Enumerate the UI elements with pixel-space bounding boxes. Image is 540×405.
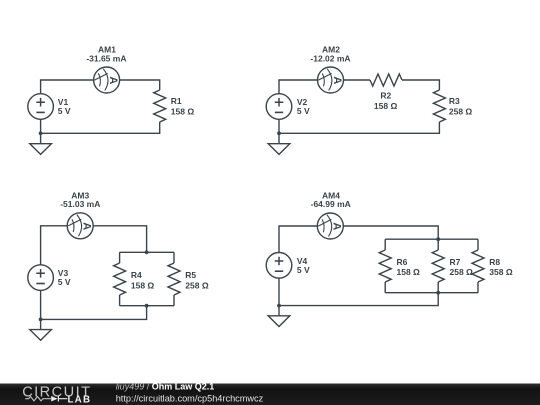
svg-text:258 Ω: 258 Ω [450,267,474,277]
ground circuit 2 [268,144,290,155]
junction node bottom rail c4 [436,291,440,295]
wire V2 bottom to ground [278,119,280,143]
wire V4 bottom to ground [278,278,280,316]
wire bottom node to V3 bottom [41,306,147,320]
svg-text:R8: R8 [489,257,500,267]
svg-text:-64.99 mA: -64.99 mA [311,199,351,209]
wire bottom rail R6 R7 R8 [385,292,478,294]
resistor R2 [370,74,402,86]
resistor R5 [168,263,180,295]
ammeter AM4 [317,213,343,239]
resistor R7 [432,250,444,282]
svg-text:5 V: 5 V [297,265,310,275]
wire bottom rail R4 R5 [120,305,174,307]
svg-text:-31.65 mA: -31.65 mA [86,54,126,64]
logo resistor squiggle [25,397,51,401]
svg-text:R6: R6 [397,257,408,267]
footer bar [0,0,1,1]
svg-text:158 Ω: 158 Ω [171,106,195,116]
wire V4 top to AM4 [279,226,317,253]
wire V1 top to AM1 [41,80,94,94]
wire top rail R6 R7 R8 [385,238,478,240]
resistor R3 [433,90,445,122]
svg-text:158 Ω: 158 Ω [374,101,398,111]
ammeter AM2 [318,67,344,93]
svg-text:A: A [81,222,93,230]
wire AM1 to R1 top [120,80,160,90]
wire R7 stubs [437,239,439,293]
wire V3 bottom to ground [40,290,42,329]
junction node top rail c4 [436,237,440,241]
svg-text:-12.02 mA: -12.02 mA [310,54,350,64]
wire AM3 to parallel top node [93,226,146,253]
svg-text:R3: R3 [449,96,460,106]
wire AM3 to V3 top [41,226,68,265]
svg-text:R4: R4 [131,270,142,280]
svg-text:LAB: LAB [68,394,92,405]
wire V1 bottom to ground [40,119,42,143]
svg-text:158 Ω: 158 Ω [397,267,421,277]
voltage source V1 [28,94,54,120]
voltage source V3 [28,265,54,291]
resistor R1 [154,90,166,122]
wire R5 stubs [173,252,175,305]
wire AM2 to R2 [344,79,371,81]
svg-text:A: A [331,76,343,84]
junction node V2-ground [277,131,281,135]
svg-text:A: A [331,222,343,230]
svg-text:http://circuitlab.com/cp5h4rch: http://circuitlab.com/cp5h4rchcmwcz [116,393,264,403]
wire top rail R4 R5 [120,251,174,253]
svg-text:5 V: 5 V [58,277,71,287]
svg-text:258 Ω: 258 Ω [449,106,473,116]
junction node bottom rail [145,304,149,308]
svg-text:R5: R5 [185,270,196,280]
voltage source V2 [266,94,292,120]
junction node V3-ground [39,318,43,322]
wire bottom node to V4 bottom [279,293,438,306]
wire AM4 to parallel top node [343,226,438,239]
svg-text:R2: R2 [380,90,391,100]
logo diode bar [58,396,67,402]
junction node V1-ground [39,131,43,135]
svg-text:R1: R1 [171,96,182,106]
wire V2 top to AM2 [279,80,318,94]
junction node top rail [145,250,149,254]
wire R2 to R3 top [402,80,439,90]
ground circuit 3 [30,330,52,341]
resistor R8 [472,250,484,282]
logo diode arrow [51,396,57,402]
ground circuit 4 [268,316,290,327]
wire R6 stubs [384,239,386,293]
resistor R6 [379,250,391,282]
svg-text:-51.03 mA: -51.03 mA [60,199,100,209]
svg-text:358 Ω: 358 Ω [489,267,513,277]
svg-text:A: A [107,76,119,84]
wire R4 stubs [119,252,121,305]
svg-text:258 Ω: 258 Ω [185,280,209,290]
wire R1 bottom to V1 bottom [41,122,160,133]
svg-text:5 V: 5 V [58,106,71,116]
resistor R4 [114,263,126,295]
ammeter AM3 [67,213,93,239]
svg-text:R7: R7 [450,257,461,267]
wire R8 stubs [477,239,479,293]
ammeter AM1 [94,67,120,93]
junction node V4-ground [277,304,281,308]
voltage source V4 [266,252,292,278]
svg-text:liuy499 / Ohm Law Q2.1: liuy499 / Ohm Law Q2.1 [116,382,215,392]
ground circuit 1 [30,144,52,155]
wire R3 bottom to V2 bottom [279,122,439,133]
svg-text:5 V: 5 V [297,106,310,116]
svg-text:158 Ω: 158 Ω [131,280,155,290]
